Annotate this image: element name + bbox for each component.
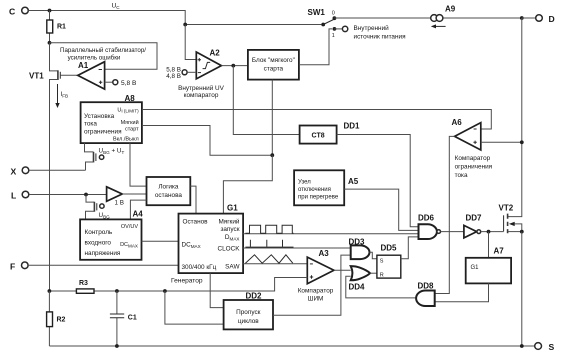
wire CLOCK from G1 to DD3: [243, 247, 351, 249]
wire F to generator G1: [28, 264, 178, 266]
wire Dmax from G1 to DD6: [243, 233, 418, 235]
wire soft start block to SW1 contact 1: [299, 29, 332, 65]
terminal L: [11, 191, 29, 201]
svg-text:усилитель ошибки: усилитель ошибки: [68, 55, 121, 62]
wire DD6 output to DD7: [441, 231, 464, 233]
block soft start: [248, 50, 299, 80]
svg-text:старта: старта: [264, 66, 284, 73]
svg-text:Генератор: Генератор: [171, 278, 203, 285]
5,8V reference terminal: [113, 80, 137, 87]
terminal S: [535, 342, 555, 352]
svg-text:SW1: SW1: [308, 8, 326, 17]
svg-text:UBG + UT: UBG + UT: [99, 148, 125, 155]
svg-text:напряжения: напряжения: [85, 250, 121, 257]
svg-text:F: F: [10, 262, 15, 272]
svg-text:X: X: [11, 167, 17, 177]
svg-text:Блок "мягкого": Блок "мягкого": [252, 57, 295, 64]
wire A4 OV/UV to stop logic: [130, 200, 146, 219]
wire S rail: [49, 345, 534, 347]
generator G1: [179, 204, 244, 274]
junction rail C1: [115, 289, 119, 293]
switch SW1: [308, 8, 337, 39]
wire A2 output down to counter CT8: [233, 66, 299, 135]
junction A6 + on drain rail: [520, 140, 524, 144]
block DD2 cycle skip: [224, 292, 273, 330]
wire feedback from node to A1 inverting input: [50, 43, 158, 69]
svg-text:SAW: SAW: [225, 264, 240, 271]
svg-text:UI (LIMIT): UI (LIMIT): [117, 108, 139, 114]
current Ifb arrow: [55, 84, 68, 108]
svg-text:старт: старт: [125, 127, 139, 133]
junction S branch: [520, 344, 524, 348]
svg-text:компаратор: компаратор: [184, 92, 219, 99]
terminal D: [522, 14, 555, 24]
wire Ui(limit) from A8 to A6 inverting input: [142, 110, 491, 130]
resistor R2: [47, 291, 66, 346]
waveform clock ticks: [245, 246, 293, 248]
wire A4 DCmax to generator G1: [142, 240, 179, 242]
wire A1 + input to 5,8V reference: [105, 81, 113, 83]
terminal X: [11, 167, 29, 177]
junction C1 bottom: [115, 344, 119, 348]
gate DD4: [349, 266, 377, 291]
A2 reference input terminal 5,8/4,8V: [166, 67, 196, 81]
block A4 input voltage monitor: [80, 210, 143, 260]
svg-text:циклов: циклов: [238, 318, 259, 325]
wire G1 bottom to cycle skip block: [210, 273, 223, 308]
transistor at X pin (Ubg+Ut): [86, 148, 125, 171]
svg-text:входного: входного: [85, 240, 112, 247]
svg-text:DD8: DD8: [418, 282, 435, 291]
terminal C: [9, 7, 28, 17]
inverter DD7: [464, 214, 482, 238]
terminal F: [10, 262, 28, 272]
svg-text:Узел: Узел: [298, 180, 311, 186]
wire soft start from A8 to soft start block net: [142, 126, 272, 156]
wire from C to SW1 pole (node Uc): [28, 11, 321, 25]
svg-text:1 В: 1 В: [115, 200, 124, 207]
wire soft start net down to G1 soft start input: [223, 155, 272, 213]
svg-text:S: S: [380, 259, 384, 265]
latch DD5: [377, 244, 401, 279]
svg-text:DD7: DD7: [466, 214, 483, 223]
wire rail R3 row to A3 + input: [49, 278, 307, 292]
wire A8 bottom to sense transistor: [85, 143, 94, 152]
junction rail DD2 branch: [163, 289, 167, 293]
svg-text:A2: A2: [210, 49, 221, 58]
svg-text:S: S: [549, 342, 555, 352]
wire A5 to DD6: [344, 189, 418, 230]
wire SW1 contact 0 to node D: [334, 17, 521, 19]
svg-text:DD4: DD4: [349, 283, 366, 292]
wire branch to A2 + input: [185, 25, 196, 60]
junction soft start net: [270, 153, 274, 157]
junction below R1: [48, 41, 52, 45]
wire VT2 source down to S rail: [521, 232, 523, 346]
gate DD8: [416, 282, 435, 307]
gate DD6: [418, 214, 441, 240]
gate DD3: [349, 238, 377, 260]
svg-text:C1: C1: [128, 315, 137, 322]
svg-text:A9: A9: [445, 5, 456, 14]
wire drain rail from D down to VT2 drain: [508, 18, 522, 217]
wire On/Off from A8 to stop logic: [130, 143, 147, 186]
svg-text:DD5: DD5: [381, 244, 398, 253]
svg-text:R: R: [380, 272, 384, 278]
svg-text:тока: тока: [84, 121, 97, 128]
svg-text:Параллельный стабилизатор/: Параллельный стабилизатор/: [60, 47, 146, 54]
block A8 current limit setting: [81, 94, 142, 143]
svg-text:Мягкий: Мягкий: [121, 119, 139, 126]
wire DD5 output to DD6: [401, 237, 419, 259]
comparator A2 (internal UV comparator): [196, 49, 221, 79]
svg-text:останова: останова: [155, 192, 183, 199]
wire soft start block bottom: [271, 80, 273, 156]
capacitor C1: [110, 291, 137, 346]
junction A2 branch: [183, 23, 187, 27]
block stop logic: [147, 177, 191, 205]
svg-text:Пропуск: Пропуск: [236, 309, 260, 316]
junction at D branch: [520, 16, 524, 20]
svg-text:G1: G1: [227, 204, 238, 213]
counter CT8 (DD1): [300, 122, 360, 144]
wire A6 output down to DD8: [435, 136, 455, 293]
svg-text:тока: тока: [455, 172, 468, 179]
current source A9: [431, 5, 456, 29]
junction DD7 output: [487, 230, 491, 234]
wire SAW from G1 to A3: [243, 263, 307, 265]
svg-text:Компаратор: Компаратор: [455, 155, 491, 162]
svg-text:A1: A1: [78, 61, 89, 70]
svg-text:ШИМ: ШИМ: [308, 296, 324, 303]
svg-text:источник питания: источник питания: [354, 34, 407, 41]
svg-text:VT1: VT1: [29, 72, 44, 81]
junction on L wire: [84, 193, 88, 197]
svg-text:A4: A4: [133, 210, 144, 219]
svg-text:Внутренний: Внутренний: [354, 24, 390, 32]
resistor R1: [47, 11, 66, 43]
wire X to sense transistor: [29, 169, 86, 171]
junction VT2 source: [520, 230, 524, 234]
svg-text:Вкл./Выкл: Вкл./Выкл: [113, 137, 139, 143]
internal power source terminal: [334, 24, 406, 41]
svg-text:ограничения: ограничения: [455, 164, 493, 171]
svg-text:Логика: Логика: [158, 184, 179, 191]
wire DD2 output to DD3 input: [273, 255, 351, 315]
svg-text:отключения: отключения: [298, 187, 331, 193]
transistor VT2: [499, 204, 522, 234]
svg-text:R3: R3: [79, 280, 88, 287]
svg-text:Компаратор: Компаратор: [298, 288, 334, 295]
svg-text:A5: A5: [348, 177, 359, 186]
svg-text:R1: R1: [57, 24, 66, 31]
svg-text:300/400 кГц: 300/400 кГц: [182, 264, 217, 271]
wire L to 1V buffer: [29, 194, 107, 196]
block A5 thermal shutdown: [294, 170, 359, 205]
svg-text:D: D: [549, 14, 555, 24]
svg-text:A3: A3: [319, 249, 330, 258]
svg-text:0: 0: [332, 11, 335, 17]
wire stop logic to G1 stop input: [190, 186, 196, 214]
comparator A6 current limit: [452, 118, 493, 179]
svg-text:Мягкий: Мягкий: [218, 218, 239, 226]
svg-text:A6: A6: [452, 118, 463, 127]
svg-text:VT2: VT2: [499, 204, 514, 213]
wire A3 output to DD4: [334, 269, 351, 271]
buffer 1V: [107, 187, 147, 207]
svg-text:DD6: DD6: [418, 214, 435, 223]
wire CT8 output to DD6: [337, 135, 419, 227]
svg-text:1: 1: [332, 33, 335, 39]
wire DD8 output to DD4 input: [346, 276, 418, 298]
wire DD7 junction down to A7: [488, 232, 490, 258]
svg-text:CT8: CT8: [311, 133, 324, 140]
transistor Ubg: [86, 202, 111, 220]
svg-text:CLOCK: CLOCK: [217, 246, 240, 253]
svg-text:C: C: [9, 7, 15, 17]
svg-text:OV/UV: OV/UV: [121, 224, 138, 230]
svg-text:4,8 В: 4,8 В: [166, 73, 181, 80]
label internal UV comparator: [178, 84, 225, 99]
svg-text:Установка: Установка: [84, 113, 115, 120]
svg-text:ограничения: ограничения: [84, 129, 122, 136]
comparator A3 PWM: [298, 249, 334, 303]
wire DD7 output to VT2 gate: [481, 231, 504, 233]
waveform sawtooth: [245, 255, 292, 263]
svg-text:L: L: [11, 191, 16, 201]
op-amp A1: [78, 61, 105, 89]
svg-text:при перегреве: при перегреве: [298, 195, 339, 201]
wire A6 + input to drain rail: [481, 141, 522, 143]
svg-text:Контроль: Контроль: [85, 229, 113, 236]
label Parallel stabilizer / error amplifier: [60, 47, 146, 62]
waveform Dmax square pulses: [245, 225, 293, 233]
resistor R3: [76, 280, 94, 293]
wire A7 bottom to DD8 input: [435, 283, 489, 301]
junction rail left (R2): [48, 289, 52, 293]
block A7 gate driver G1: [466, 247, 511, 284]
svg-text:DD1: DD1: [344, 122, 361, 131]
junction R1 top: [48, 9, 52, 13]
svg-text:G1: G1: [471, 265, 480, 271]
svg-text:DCMAX: DCMAX: [120, 242, 138, 248]
wire A2 output to soft start block: [221, 65, 248, 67]
svg-text:A7: A7: [494, 247, 505, 256]
wire L junction down to Ubg transistor: [86, 195, 94, 203]
junction A2 output: [231, 64, 235, 68]
svg-text:Останов: Останов: [183, 219, 209, 226]
svg-text:R2: R2: [57, 317, 66, 324]
transistor VT1: [29, 43, 78, 291]
wire rail branch down to DD2: [165, 291, 224, 324]
svg-text:5,8 В: 5,8 В: [121, 80, 137, 87]
svg-text:запуск: запуск: [220, 226, 239, 233]
